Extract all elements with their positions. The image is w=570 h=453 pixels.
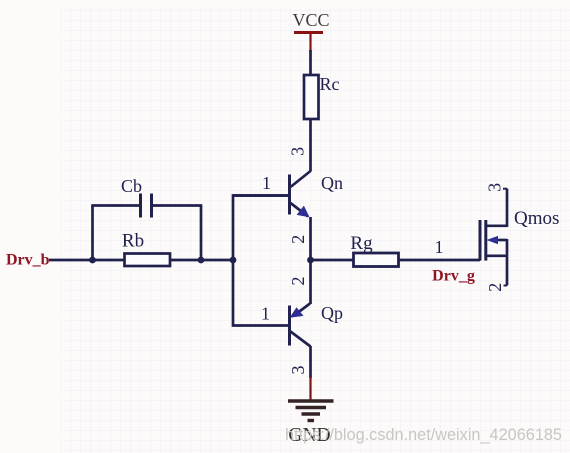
svg-text:Qn: Qn xyxy=(321,173,343,193)
svg-text:Rg: Rg xyxy=(350,233,373,254)
svg-text:Cb: Cb xyxy=(121,176,142,196)
svg-text:Drv_g: Drv_g xyxy=(432,268,475,285)
svg-text:Rb: Rb xyxy=(122,231,144,252)
svg-text:Qmos: Qmos xyxy=(514,208,559,229)
svg-text:2: 2 xyxy=(288,235,308,244)
svg-text:VCC: VCC xyxy=(292,10,329,30)
svg-text:3: 3 xyxy=(485,183,505,192)
svg-text:Rc: Rc xyxy=(320,74,340,94)
svg-text:3: 3 xyxy=(288,366,308,375)
svg-text:https://blog.csdn.net/weixin_4: https://blog.csdn.net/weixin_42066185 xyxy=(285,426,562,444)
svg-text:1: 1 xyxy=(261,304,270,324)
svg-text:1: 1 xyxy=(435,237,444,257)
svg-text:3: 3 xyxy=(288,147,308,156)
svg-text:Drv_b: Drv_b xyxy=(6,252,50,269)
svg-text:Qp: Qp xyxy=(321,303,343,323)
svg-text:2: 2 xyxy=(288,277,308,286)
svg-text:1: 1 xyxy=(262,173,271,193)
svg-text:2: 2 xyxy=(485,283,505,292)
